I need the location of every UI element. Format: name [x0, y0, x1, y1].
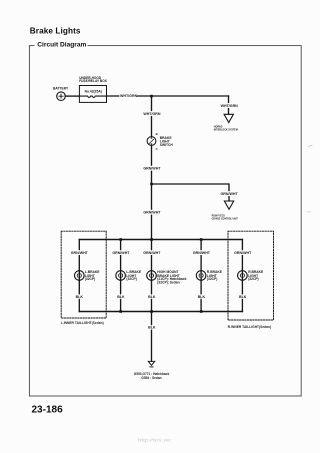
wire battery to fuse box: [65, 95, 79, 97]
wire BLK bottom bus to ground: [147, 312, 157, 362]
L.brake light bulb (inner): [75, 270, 101, 281]
R.brake light bulb: [196, 270, 222, 281]
wire BLK below high mount bulb: [147, 294, 157, 298]
svg-text:GRN/WHT: GRN/WHT: [112, 251, 130, 255]
arrow to horns / interlock system: [213, 114, 238, 131]
R.inner taillight (Sedan) box: [228, 231, 274, 329]
wire branch to PGM-FI ECU arrow: [152, 184, 239, 201]
svg-text:BLK: BLK: [239, 295, 247, 299]
junction node at brake switch branch: [150, 95, 153, 98]
svg-text:GRN/WHT: GRN/WHT: [234, 251, 252, 255]
svg-text:-INTERLOCK SYSTEM: -INTERLOCK SYSTEM: [213, 128, 238, 132]
wire BLK below L.brake bulb: [116, 294, 126, 298]
svg-text:WHT/GRN: WHT/GRN: [120, 94, 138, 98]
wire GRN/WHT to L.brake bulb: [112, 240, 131, 312]
svg-text:L.INNER TAILLIGHT(Sedan): L.INNER TAILLIGHT(Sedan): [61, 321, 104, 325]
wire GRN/WHT to L.inner brake bulb: [70, 240, 89, 312]
svg-text:(32CP): Sedan: (32CP): Sedan: [157, 281, 179, 285]
svg-text:GRN/WHT: GRN/WHT: [143, 167, 161, 171]
junction node at ECU branch: [150, 183, 153, 186]
svg-text:GRN/WHT: GRN/WHT: [221, 192, 239, 196]
svg-text:BLK: BLK: [198, 295, 206, 299]
svg-text:BLK: BLK: [117, 295, 125, 299]
wire BLK below R.brake bulb: [197, 294, 207, 298]
svg-text:SWITCH: SWITCH: [160, 143, 174, 147]
L.brake light bulb: [116, 270, 142, 281]
svg-text:GRN/WHT: GRN/WHT: [143, 251, 161, 255]
svg-text:GRN/WHT: GRN/WHT: [143, 211, 161, 215]
svg-text:(32CP): (32CP): [207, 277, 217, 281]
high mount brake light bulb: [147, 270, 187, 284]
svg-text:(32CP): (32CP): [126, 277, 136, 281]
svg-text:(32CP): (32CP): [248, 277, 258, 281]
svg-text:WHT/GRN: WHT/GRN: [221, 104, 239, 108]
R.brake light bulb (inner): [238, 270, 264, 281]
wire BLK below R.inner bulb: [238, 294, 248, 298]
wire GRN/WHT to R.inner brake bulb: [234, 240, 253, 312]
svg-text:R.INNER TAILLIGHT(Sedan): R.INNER TAILLIGHT(Sedan): [228, 325, 271, 329]
junction dots on top bus: [119, 238, 202, 241]
fuse No.42 (25A): [79, 86, 106, 103]
svg-text:-CRUISE CONTROL UNIT: -CRUISE CONTROL UNIT: [211, 217, 238, 221]
svg-text:GRN/WHT: GRN/WHT: [71, 251, 89, 255]
wire WHT/GRN fuse to junction: [107, 93, 229, 98]
svg-text:No.42(25A): No.42(25A): [85, 90, 102, 94]
brake light switch: [147, 136, 173, 147]
battery: [53, 86, 69, 100]
svg-text:BATTERY: BATTERY: [53, 86, 69, 90]
svg-text:BLK: BLK: [148, 295, 156, 299]
svg-text:Brake Lights: Brake Lights: [30, 26, 81, 35]
svg-text:BLK: BLK: [76, 295, 84, 299]
bottom bus wire: [79, 311, 242, 313]
svg-text:FUSE/RELAY BOX: FUSE/RELAY BOX: [79, 79, 108, 83]
wire GRN/WHT to high mount bulb: [143, 240, 162, 312]
svg-text:WHT/GRN: WHT/GRN: [143, 112, 161, 116]
svg-text:GRN/WHT: GRN/WHT: [193, 251, 211, 255]
ground G553,G771 / G554: [134, 361, 170, 380]
junction dots on bottom bus: [119, 310, 202, 313]
svg-text:Circuit Diagram: Circuit Diagram: [37, 42, 86, 49]
under-hood fuse/relay box label: [79, 76, 108, 83]
wire GRN/WHT to R.brake bulb: [192, 240, 211, 312]
svg-text:B: B: [156, 132, 158, 136]
arrow to PGM-FI ECU / cruise control unit: [211, 201, 238, 221]
L.inner taillight (Sedan) box: [61, 231, 106, 325]
svg-text:(32CP): (32CP): [85, 277, 95, 281]
wire GRN/WHT switch down to branch junction: [143, 146, 162, 184]
wire GRN/WHT down to top bus: [143, 184, 162, 240]
top bus wire: [79, 239, 242, 241]
svg-text:23-186: 23-186: [32, 404, 64, 415]
wire BLK below L.inner bulb: [75, 294, 85, 298]
svg-text:G554 : Sedan: G554 : Sedan: [141, 376, 161, 380]
svg-text:http:⁄⁄tes.wc: http:⁄⁄tes.wc: [138, 438, 172, 443]
wire WHT/GRN junction down to brake light switch: [143, 96, 161, 136]
wire WHT/GRN down to horns arrow: [220, 96, 239, 114]
svg-text:BLK: BLK: [148, 326, 156, 330]
